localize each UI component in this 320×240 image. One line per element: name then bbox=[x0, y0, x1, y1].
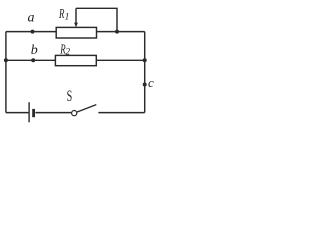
svg-text:a: a bbox=[28, 11, 35, 26]
svg-text:S: S bbox=[67, 88, 73, 105]
svg-text:1: 1 bbox=[65, 12, 70, 22]
svg-text:c: c bbox=[148, 75, 154, 90]
svg-text:b: b bbox=[31, 43, 38, 58]
svg-text:2: 2 bbox=[66, 47, 71, 57]
